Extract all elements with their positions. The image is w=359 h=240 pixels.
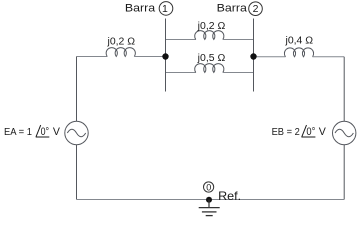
svg-text:V: V bbox=[53, 126, 61, 138]
svg-text:0°: 0° bbox=[41, 126, 50, 138]
svg-text:j0,2 Ω: j0,2 Ω bbox=[197, 21, 226, 32]
svg-text:0°: 0° bbox=[306, 126, 315, 138]
svg-text:0: 0 bbox=[206, 182, 211, 192]
svg-text:Barra: Barra bbox=[125, 3, 156, 15]
svg-text:Barra: Barra bbox=[217, 3, 248, 15]
svg-text:V: V bbox=[319, 126, 327, 138]
svg-text:j0,4 Ω: j0,4 Ω bbox=[284, 36, 313, 47]
svg-text:j0,2 Ω: j0,2 Ω bbox=[106, 37, 135, 48]
svg-text:EA = 1: EA = 1 bbox=[4, 127, 32, 138]
svg-text:2: 2 bbox=[253, 3, 259, 15]
svg-text:j0,5 Ω: j0,5 Ω bbox=[197, 53, 226, 64]
svg-text:EB = 2: EB = 2 bbox=[272, 127, 300, 138]
svg-text:1: 1 bbox=[162, 3, 168, 15]
svg-text:Ref.: Ref. bbox=[218, 189, 241, 203]
